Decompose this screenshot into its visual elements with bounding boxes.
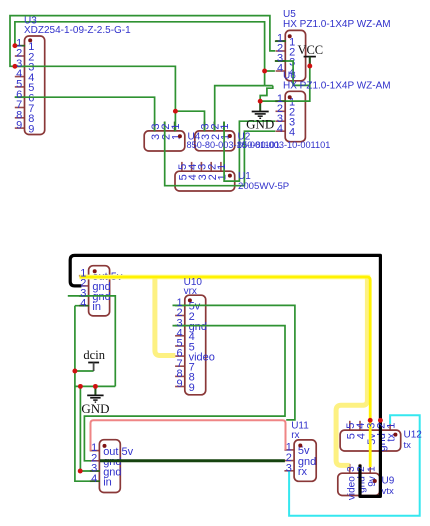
svg-text:1: 1 bbox=[385, 423, 397, 429]
label U5 value bbox=[283, 19, 391, 30]
connector U4 bbox=[144, 122, 185, 151]
wire pink 5v bbox=[91, 420, 286, 450]
wire vrx.3 to U8.2 bbox=[84, 326, 285, 461]
wire branch to U5 pin4 bbox=[265, 70, 275, 72]
pin numbers U1 bbox=[177, 164, 228, 170]
connector U11 bbox=[284, 440, 316, 481]
svg-text:HX PZ1.0-1X4P WZ-AM: HX PZ1.0-1X4P WZ-AM bbox=[283, 81, 391, 92]
label U12 name bbox=[404, 429, 423, 440]
svg-text:rx: rx bbox=[291, 430, 299, 441]
wire U6.1 stub overlay bbox=[275, 100, 286, 102]
svg-text:9: 9 bbox=[176, 378, 182, 390]
wire U7.3 net bbox=[68, 296, 116, 387]
svg-text:rx: rx bbox=[298, 466, 308, 478]
svg-text:GND: GND bbox=[246, 117, 274, 132]
junction bbox=[78, 384, 83, 389]
label U11 value bbox=[291, 430, 299, 441]
junction bbox=[93, 384, 98, 389]
wire VCC vertical bbox=[260, 56, 310, 101]
label U2 value bbox=[237, 140, 330, 150]
wire yellow core bbox=[80, 277, 371, 467]
pin numbers U12 bbox=[345, 423, 397, 429]
junction bbox=[72, 369, 77, 374]
label U9 name bbox=[382, 476, 395, 487]
pin numbers U3 bbox=[16, 37, 22, 131]
svg-text:9: 9 bbox=[16, 120, 22, 132]
svg-text:3: 3 bbox=[286, 462, 292, 474]
junction bbox=[12, 64, 17, 69]
svg-text:850-80-003-10-001101: 850-80-003-10-001101 bbox=[237, 140, 330, 150]
label U3 name bbox=[24, 16, 37, 27]
wire thick gnd bbox=[100, 459, 285, 462]
svg-text:1: 1 bbox=[170, 123, 182, 129]
wire cyan rx bbox=[289, 415, 420, 515]
connector U12 bbox=[340, 421, 401, 452]
label U1 value bbox=[238, 181, 289, 192]
svg-text:4: 4 bbox=[277, 123, 283, 135]
connector U8 bbox=[90, 440, 134, 493]
wire dcin/gnd vertical bbox=[75, 306, 90, 482]
wire bus y85.6 bbox=[215, 86, 265, 131]
wire U3.1 to U5.4 bbox=[15, 22, 265, 86]
svg-text:GND: GND bbox=[81, 401, 109, 416]
label U12 value bbox=[404, 440, 412, 451]
junction bbox=[258, 99, 263, 104]
wire U3.3 to U4.1 U2.3 bbox=[15, 66, 205, 131]
svg-text:4: 4 bbox=[91, 473, 97, 485]
wire U5.3 stub overlay bbox=[275, 60, 286, 62]
svg-text:1: 1 bbox=[219, 123, 231, 129]
connector U1 bbox=[175, 162, 235, 191]
label U6 value bbox=[283, 81, 391, 92]
connector U3 bbox=[15, 36, 45, 135]
pin numbers U4 bbox=[150, 123, 182, 129]
wire y386 bus bbox=[75, 385, 115, 387]
wire black gnd bbox=[70, 255, 380, 496]
svg-text:vrx: vrx bbox=[184, 286, 197, 297]
junction bbox=[307, 64, 312, 69]
junction bbox=[262, 69, 267, 74]
svg-text:2005WV-5P: 2005WV-5P bbox=[238, 181, 289, 192]
label U1 name bbox=[238, 171, 251, 182]
wire U2.1 to U6.3 bbox=[224, 121, 275, 181]
junction bbox=[78, 469, 83, 474]
svg-text:4: 4 bbox=[289, 127, 295, 139]
label U10 value bbox=[184, 286, 197, 297]
connector U5 bbox=[276, 30, 306, 80]
pin numbers U7 bbox=[80, 267, 86, 309]
svg-text:in: in bbox=[92, 301, 101, 313]
junction bbox=[12, 43, 17, 48]
wire gnd branch bbox=[94, 386, 96, 395]
svg-text:in: in bbox=[103, 477, 112, 489]
svg-text:VCC: VCC bbox=[297, 43, 323, 57]
svg-text:dcin: dcin bbox=[83, 348, 105, 362]
pin numbers U2 bbox=[200, 123, 232, 129]
pin numbers U8 bbox=[91, 442, 97, 485]
label U9 value bbox=[382, 486, 394, 497]
wire U4.2 to U6.4 bbox=[165, 122, 276, 186]
svg-text:1: 1 bbox=[366, 466, 377, 472]
connector U7 bbox=[79, 266, 123, 316]
label U10 name bbox=[184, 277, 203, 288]
pin numbers U9 bbox=[346, 466, 378, 472]
wire yellow pale video bbox=[336, 277, 367, 465]
ground GND bottom bbox=[81, 386, 109, 416]
svg-text:9: 9 bbox=[189, 382, 195, 394]
svg-text:XDZ254-1-09-Z-2.5-G-1: XDZ254-1-09-Z-2.5-G-1 bbox=[24, 25, 131, 36]
svg-text:1: 1 bbox=[216, 164, 228, 170]
connector U2 bbox=[195, 122, 235, 151]
pin numbers U6 bbox=[277, 93, 283, 135]
svg-text:vtx: vtx bbox=[382, 486, 394, 497]
pin numbers U10 bbox=[176, 297, 182, 390]
label U4 name bbox=[188, 131, 201, 142]
wire U3.3 to U5.2 bbox=[10, 16, 275, 67]
junction bbox=[368, 418, 373, 423]
svg-text:4: 4 bbox=[80, 297, 86, 309]
connector U6 bbox=[276, 91, 306, 141]
junction bbox=[378, 418, 383, 423]
pin numbers U11 bbox=[286, 442, 292, 475]
wire branch to U8.3 bbox=[80, 386, 90, 471]
svg-text:9: 9 bbox=[28, 123, 34, 135]
junction bbox=[173, 109, 178, 114]
wire dcin branch bbox=[75, 370, 94, 372]
label U3 value bbox=[24, 25, 131, 36]
wire yellow pale branch bbox=[155, 277, 175, 356]
power dcin bbox=[83, 348, 105, 371]
pin numbers U5 bbox=[277, 33, 283, 75]
ground GND top bbox=[246, 101, 274, 131]
wire U3.6 to U4.3 bbox=[15, 97, 155, 131]
label U2 name bbox=[238, 131, 251, 142]
wire jog to GND node bbox=[260, 86, 273, 102]
svg-text:tx: tx bbox=[404, 440, 412, 451]
svg-text:U12: U12 bbox=[404, 429, 423, 440]
svg-text:1: 1 bbox=[217, 174, 229, 180]
wire U5.1 stub bbox=[275, 40, 286, 42]
power VCC bbox=[297, 43, 323, 64]
wire vrx.1 5v bbox=[173, 305, 295, 420]
wire U5.3 to VCC bbox=[275, 61, 310, 85]
connector U10 bbox=[175, 295, 215, 395]
label U4 value bbox=[187, 140, 280, 150]
label U6 name bbox=[283, 71, 296, 82]
svg-text:HX PZ1.0-1X4P WZ-AM: HX PZ1.0-1X4P WZ-AM bbox=[283, 19, 391, 30]
connector U9 bbox=[338, 464, 380, 500]
label U11 name bbox=[291, 420, 309, 431]
wire yellow halo bbox=[80, 275, 371, 280]
label U5 name bbox=[283, 9, 296, 20]
